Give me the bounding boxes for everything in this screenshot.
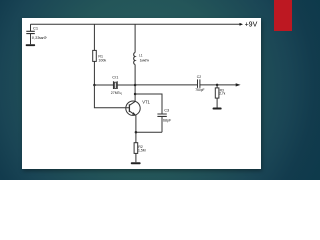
svg-text:1мкГн: 1мкГн <box>140 59 150 63</box>
red accent bar <box>274 0 292 31</box>
node arrow +9V <box>240 23 244 26</box>
crystal Cr1 <box>114 81 118 89</box>
wire +9V top rail <box>31 23 240 25</box>
wire C3 bottom to emitter <box>136 131 162 133</box>
svg-text:C3: C3 <box>164 109 169 113</box>
slide <box>22 18 261 169</box>
resistor R3 <box>215 85 219 108</box>
node arrow output <box>236 83 241 86</box>
svg-text:C1: C1 <box>33 25 39 30</box>
wire output rail <box>135 84 236 86</box>
svg-text:100k: 100k <box>98 59 106 63</box>
capacitor C2 <box>198 79 200 88</box>
svg-text:VT1: VT1 <box>142 99 150 104</box>
svg-text:1,5М: 1,5М <box>138 148 146 152</box>
svg-text:2,7к: 2,7к <box>219 92 226 96</box>
ground (R2) <box>131 162 141 164</box>
wire crystal rail <box>94 84 135 86</box>
svg-text:0,33мкФ: 0,33мкФ <box>32 36 47 40</box>
ground (C1) <box>26 44 35 46</box>
node junction collector/C3 branch <box>134 93 137 96</box>
svg-text:68pF: 68pF <box>163 119 172 123</box>
svg-text:L1: L1 <box>139 53 143 57</box>
capacitor C1 <box>26 24 35 44</box>
node junction emitter/C3 <box>135 131 138 134</box>
inductor L1 <box>134 24 135 101</box>
svg-text:C2: C2 <box>197 75 201 79</box>
svg-text:Cr1: Cr1 <box>112 75 118 79</box>
node junction R1/crystal <box>93 84 96 87</box>
ground (R3) <box>213 108 222 110</box>
wire C3 top branch <box>135 94 162 114</box>
svg-text:750pF: 750pF <box>195 88 204 92</box>
capacitor C3 <box>157 114 166 132</box>
transistor VT1 <box>126 101 140 132</box>
svg-text:27МГц: 27МГц <box>111 91 122 95</box>
node junction R3 <box>216 84 219 87</box>
node junction L1/crystal <box>134 84 137 87</box>
svg-text:+9V: +9V <box>245 21 258 28</box>
resistor R1 <box>93 24 97 85</box>
resistor R2 <box>134 132 138 162</box>
wire base branch <box>94 85 129 108</box>
